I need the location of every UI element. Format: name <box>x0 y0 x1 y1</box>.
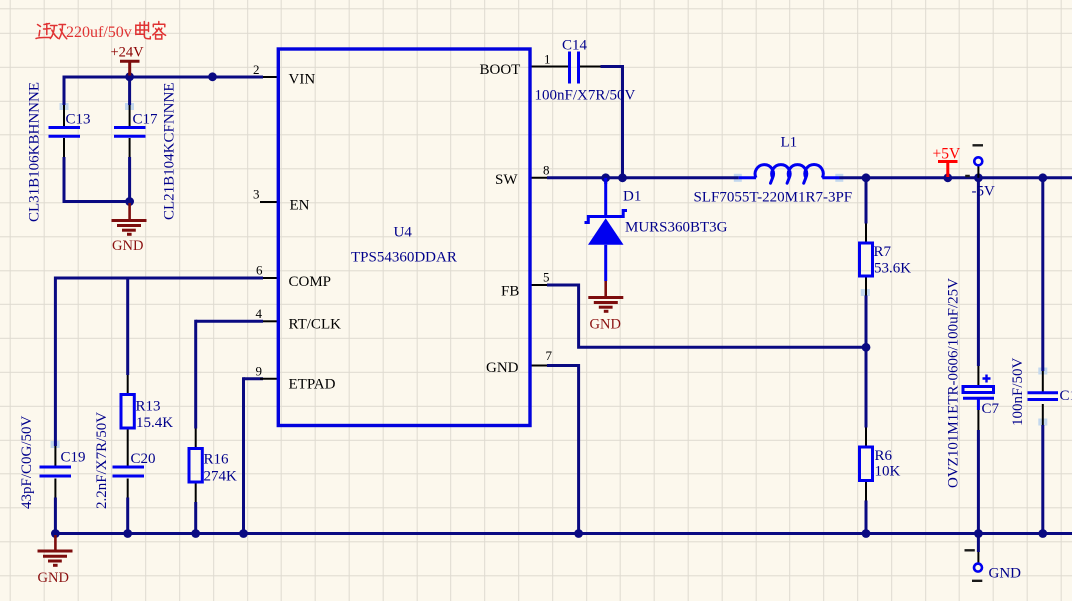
junction top port <box>974 173 983 182</box>
pin R16 bottom <box>195 482 197 502</box>
svg-text:GND: GND <box>590 317 621 333</box>
svg-text:CL21B104KCFNNNE: CL21B104KCFNNNE <box>162 82 178 220</box>
pin C15 top <box>1042 371 1044 392</box>
ground symbol bottom left <box>38 535 73 565</box>
top port P1 circle <box>974 157 982 165</box>
svg-text:6: 6 <box>256 263 263 278</box>
svg-text:MURS360BT3G: MURS360BT3G <box>625 220 728 236</box>
diode D1 anode lead <box>604 245 607 281</box>
svg-text:4: 4 <box>256 306 263 321</box>
svg-text:220uf/50v: 220uf/50v <box>66 24 132 41</box>
svg-text:274K: 274K <box>204 469 238 485</box>
svg-text:2: 2 <box>253 62 260 77</box>
junction SW R7 <box>862 173 871 182</box>
svg-text:L1: L1 <box>781 135 798 151</box>
wire D1 cathode drop <box>604 178 607 184</box>
svg-text:GND: GND <box>989 566 1022 582</box>
pin C15 bottom <box>1042 404 1044 425</box>
svg-text:-5V: -5V <box>972 184 995 200</box>
svg-text:C20: C20 <box>131 451 156 467</box>
pin C19 bottom <box>54 479 56 498</box>
capacitor C7 bottom plate <box>963 397 994 400</box>
svg-text:C15: C15 <box>1060 388 1072 404</box>
wire R6 bottom to bus <box>865 501 868 534</box>
ground symbol under C13 C17 <box>112 203 147 234</box>
wire FB net <box>547 285 866 347</box>
svg-text:C13: C13 <box>66 112 91 128</box>
junction bus C20 <box>123 529 132 538</box>
inductor L1 leads <box>739 176 840 179</box>
capacitor C20 plates <box>113 467 145 476</box>
svg-text:SW: SW <box>495 172 518 188</box>
svg-text:BOOT: BOOT <box>480 62 521 78</box>
pin 4 stub U4 <box>263 320 277 322</box>
wire R7 bottom to FB junction <box>865 296 868 348</box>
IC U4 body rectangle <box>278 49 530 426</box>
svg-text:R7: R7 <box>874 244 892 260</box>
svg-text:GND: GND <box>486 360 519 376</box>
svg-text:+24V: +24V <box>111 45 145 61</box>
wire C19 bottom to bus <box>54 498 57 534</box>
inductor L1 arcs <box>755 165 823 184</box>
wire R16 branch vertical <box>194 320 197 429</box>
svg-text:U4: U4 <box>394 225 413 241</box>
wire C15 bottom to bus <box>1041 425 1044 534</box>
junction C15 top <box>1038 173 1047 182</box>
wire R7 branch vertical <box>865 178 868 224</box>
svg-text:R13: R13 <box>136 399 161 415</box>
svg-text:GND: GND <box>112 238 143 254</box>
capacitor C17 plates <box>114 128 146 137</box>
chinese note char 近 <box>36 24 51 39</box>
svg-text:9: 9 <box>256 364 263 379</box>
pin 9 stub U4 <box>260 378 277 380</box>
pin C14 right <box>580 66 601 68</box>
svg-text:53.6K: 53.6K <box>874 261 911 277</box>
chinese note char 容 <box>153 22 166 40</box>
ground symbol under D1 <box>588 281 623 311</box>
wire C7 bottom to bus <box>977 430 980 534</box>
wire bottom ground bus <box>55 532 1072 535</box>
wire RT/CLK horizontal <box>196 320 263 323</box>
capacitor C7 plus sign <box>983 375 991 383</box>
pin R13 bottom C20 top <box>127 428 129 466</box>
wire BOOT to C14 drop <box>601 67 623 178</box>
svg-text:TPS54360DDAR: TPS54360DDAR <box>351 250 457 266</box>
svg-text:7: 7 <box>546 348 553 363</box>
power +5V bar <box>938 162 958 178</box>
pin C14 left <box>547 66 568 68</box>
svg-text:RT/CLK: RT/CLK <box>289 317 342 333</box>
wire bottom port stub <box>977 534 980 553</box>
junction +5V stub <box>943 173 952 182</box>
junction bus C7 port <box>974 529 983 538</box>
pin bottom port <box>977 552 979 564</box>
svg-text:3: 3 <box>253 187 260 202</box>
svg-text:SLF7055T-220M1R7-3PF: SLF7055T-220M1R7-3PF <box>694 190 853 206</box>
diode D1 cathode lead <box>604 178 607 217</box>
svg-text:C14: C14 <box>562 38 588 54</box>
svg-text:ETPAD: ETPAD <box>289 377 336 393</box>
resistor R13 body <box>121 395 134 429</box>
resistor R6 body <box>860 447 873 481</box>
svg-text:100nF/X7R/50V: 100nF/X7R/50V <box>535 88 636 104</box>
resistor R16 body <box>189 449 202 483</box>
pin C13 top <box>63 105 65 126</box>
capacitor C19 plates <box>40 467 72 476</box>
svg-text:8: 8 <box>543 162 550 177</box>
svg-text:43pF/C0G/50V: 43pF/C0G/50V <box>19 415 35 509</box>
pin 8 stub U4 SW <box>530 177 547 179</box>
svg-text:OVZ101M1ETR-0606/100uF/25V: OVZ101M1ETR-0606/100uF/25V <box>946 278 962 488</box>
capacitor C13 plates <box>49 128 81 137</box>
pin 6 stub U4 <box>263 277 277 279</box>
junction bus C19 <box>51 529 60 538</box>
diode D1 triangle <box>588 218 624 245</box>
pin C17 bottom <box>129 138 131 157</box>
capacitor C7 polarized top plate box <box>963 387 994 393</box>
wire R16 bottom to bus <box>194 502 197 534</box>
pin 3 stub U4 <box>260 201 277 203</box>
junction C13 C17 GND <box>125 197 134 206</box>
svg-text:5: 5 <box>543 270 550 285</box>
wire C17 branch vertical <box>128 77 131 105</box>
wire R7 junction to R6 <box>865 347 868 427</box>
wire ETPAD horizontal <box>244 377 264 380</box>
pin R7 top <box>865 224 867 244</box>
top port pin number 1 rotated <box>965 145 983 176</box>
wire C7 branch vertical <box>977 178 980 366</box>
junction bus R6 <box>862 529 871 538</box>
junction bus GND pin7 <box>574 529 583 538</box>
pin C20 bottom <box>127 479 129 498</box>
diode D1 schottky cathode bar <box>585 211 628 223</box>
pin 2 stub U4 <box>263 76 277 78</box>
svg-text:2.2nF/X7R/50V: 2.2nF/X7R/50V <box>94 412 110 509</box>
wire C13 branch vertical <box>63 76 66 106</box>
bottom port GND circle <box>974 564 982 572</box>
junction FB R7 R6 <box>862 343 871 352</box>
wire R13 branch vertical <box>126 278 129 375</box>
wire C13 bottom to GND corner <box>64 157 130 202</box>
wire VIN input horizontal <box>64 76 263 79</box>
junction bus R16 <box>191 529 200 538</box>
capacitor C15 plates <box>1028 393 1059 400</box>
junction C17 top <box>125 72 134 81</box>
pin C7 bottom <box>977 410 979 430</box>
junction VIN wire mid <box>208 72 217 81</box>
svg-text:VIN: VIN <box>289 72 316 88</box>
pin top port <box>977 166 979 178</box>
wire C15 branch vertical <box>1041 178 1044 371</box>
svg-text:+5V: +5V <box>933 146 961 163</box>
svg-text:100nF/50V: 100nF/50V <box>1010 357 1026 426</box>
wire GND pin7 net <box>547 366 579 534</box>
svg-text:10K: 10K <box>875 464 901 480</box>
pin R7 bottom <box>865 276 867 296</box>
svg-text:15.4K: 15.4K <box>136 415 173 431</box>
junction bus ETPAD <box>239 529 248 538</box>
wire L1 to right edge <box>840 176 1072 179</box>
pin end markers light blue (behind) <box>51 103 1048 448</box>
svg-text:R16: R16 <box>204 452 230 468</box>
svg-text:1: 1 <box>544 52 551 67</box>
capacitor C7 lead below plate <box>977 400 980 411</box>
pin 7 stub U4 GND <box>530 365 547 367</box>
pin R6 top <box>865 428 867 448</box>
wire C20 bottom to bus <box>126 498 129 534</box>
wire C17 bottom vertical <box>128 157 131 203</box>
wire ETPAD vertical to bus <box>242 377 245 533</box>
pin R6 bottom <box>865 481 867 501</box>
power +24V bar <box>120 61 140 75</box>
svg-text:C19: C19 <box>61 450 86 466</box>
svg-text:C7: C7 <box>982 401 1000 417</box>
chinese note char 电 <box>136 22 151 39</box>
capacitor C14 plates <box>570 52 579 84</box>
svg-text:D1: D1 <box>623 189 641 205</box>
svg-text:FB: FB <box>501 284 519 300</box>
wire SW output <box>547 176 739 179</box>
pin 1 stub U4 BOOT <box>530 66 547 68</box>
junction bus C15 <box>1038 529 1047 538</box>
pin C7 top <box>977 366 979 387</box>
pin C17 top <box>129 105 131 126</box>
wire COMP horizontal <box>55 277 263 280</box>
pin C19 top <box>54 446 56 466</box>
svg-text:C17: C17 <box>133 112 159 128</box>
bottom port pin number 1 rotated <box>965 550 983 581</box>
junction SW C14 <box>618 173 627 182</box>
pin R13 top <box>127 375 129 395</box>
pin R16 top <box>195 429 197 449</box>
svg-text:EN: EN <box>290 198 310 214</box>
chinese note char 双 <box>50 25 67 39</box>
svg-text:COMP: COMP <box>289 274 332 290</box>
svg-text:R6: R6 <box>875 448 893 464</box>
pin 5 stub U4 FB <box>530 284 547 286</box>
svg-text:GND: GND <box>38 570 69 586</box>
wire C19 branch vertical <box>54 277 57 447</box>
svg-text:CL31B106KBHNNNE: CL31B106KBHNNNE <box>27 82 43 222</box>
junction SW D1 <box>601 173 610 182</box>
pin C13 bottom <box>63 138 65 157</box>
resistor R7 body <box>860 243 873 276</box>
